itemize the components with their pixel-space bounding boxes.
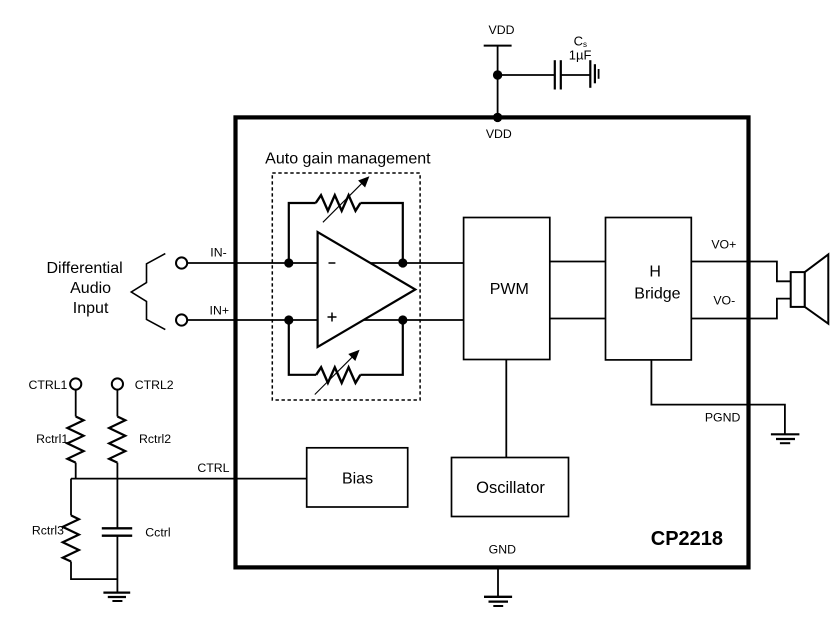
- svg-text:Input: Input: [73, 300, 109, 317]
- svg-text:IN+: IN+: [210, 304, 229, 318]
- wire CTRL: [71, 478, 307, 480]
- svg-text:Rctrl3: Rctrl3: [32, 524, 64, 538]
- block H Bridge: [606, 218, 692, 360]
- arrow (top variable resistor): [323, 182, 364, 223]
- wire IN- rail: [187, 262, 463, 264]
- svg-text:PGND: PGND: [705, 411, 741, 425]
- wire PWM to H bridge bottom: [550, 318, 606, 320]
- svg-text:IN-: IN-: [210, 246, 226, 260]
- power symbol VDD: [484, 45, 512, 47]
- dashed box auto gain management: [272, 173, 420, 400]
- op-amp plus input: [328, 316, 337, 318]
- wire Cs to ground: [561, 74, 591, 76]
- wire feedback loop top left: [289, 203, 316, 263]
- svg-text:VO-: VO-: [713, 294, 735, 308]
- node junction dot on chip top edge: [493, 113, 502, 122]
- svg-text:CTRL1: CTRL1: [28, 378, 67, 392]
- svg-text:VO+: VO+: [711, 238, 736, 252]
- arrow (bottom variable resistor): [315, 357, 353, 395]
- node dot IN-: [284, 258, 293, 267]
- wire CTRL to Cctrl: [116, 479, 118, 529]
- resistor Rctrl1: [67, 417, 83, 463]
- svg-text:Oscillator: Oscillator: [476, 479, 545, 497]
- svg-text:H: H: [649, 264, 661, 281]
- chip outline CP2218: [236, 117, 749, 567]
- wire to Cs: [498, 74, 555, 76]
- wire feedback loop top right: [360, 203, 402, 263]
- svg-text:1µF: 1µF: [569, 48, 592, 63]
- node dot out bottom: [398, 315, 407, 324]
- terminal CTRL2: [112, 378, 123, 389]
- wire feedback loop bottom left: [289, 320, 316, 375]
- svg-text:Bridge: Bridge: [634, 286, 680, 303]
- wire GND stem: [497, 567, 499, 597]
- wire Rctrl1 tail: [75, 463, 77, 479]
- svg-text:Rctrl1: Rctrl1: [36, 432, 68, 446]
- svg-text:Rctrl2: Rctrl2: [139, 432, 171, 446]
- resistor Rctrl3: [63, 515, 79, 561]
- capacitor Cctrl: [102, 528, 132, 535]
- svg-text:CTRL2: CTRL2: [135, 378, 174, 392]
- svg-text:CTRL: CTRL: [197, 461, 229, 475]
- svg-text:GND: GND: [489, 543, 516, 557]
- ground (GND): [484, 597, 512, 606]
- brace: [131, 254, 165, 330]
- resistor variable (top feedback): [316, 195, 361, 211]
- wire VO+: [691, 262, 790, 282]
- wire down to Rctrl3: [70, 479, 72, 516]
- label Differential Audio Input: [47, 260, 123, 317]
- block PWM: [464, 218, 550, 360]
- node dot IN+: [284, 315, 293, 324]
- svg-text:Cctrl: Cctrl: [145, 526, 170, 540]
- op-amp U1: [318, 232, 416, 347]
- svg-text:PWM: PWM: [490, 281, 529, 298]
- svg-text:Audio: Audio: [70, 280, 111, 297]
- speaker LS1: [791, 254, 829, 323]
- wire Rctrl3 bottom: [71, 562, 117, 580]
- op-amp minus input: [329, 262, 336, 264]
- block Bias: [307, 448, 408, 507]
- svg-text:CP2218: CP2218: [651, 528, 723, 550]
- terminal IN+: [176, 314, 187, 325]
- wire CTRL1 stem: [75, 390, 77, 417]
- wire IN+ rail: [187, 319, 463, 321]
- resistor Rctrl2: [109, 417, 125, 463]
- resistor variable (bottom feedback): [316, 367, 360, 383]
- svg-text:Differential: Differential: [47, 260, 123, 277]
- terminal IN-: [176, 257, 187, 268]
- wire CTRL2 stem: [116, 390, 118, 417]
- ground (Cctrl): [103, 593, 130, 601]
- svg-text:VDD: VDD: [486, 127, 512, 141]
- ground (right of Cs): [590, 60, 598, 88]
- terminal CTRL1: [70, 378, 81, 389]
- wire feedback loop bottom right: [360, 320, 402, 375]
- wire PWM to oscillator: [505, 360, 507, 458]
- svg-text:Auto gain management: Auto gain management: [265, 151, 431, 168]
- wire VO-: [691, 299, 790, 319]
- wire H bridge to PGND: [651, 360, 785, 435]
- svg-text:Bias: Bias: [342, 471, 373, 488]
- wire PWM to H bridge top: [550, 261, 606, 263]
- node dot out top: [398, 258, 407, 267]
- block Oscillator: [452, 458, 569, 517]
- wire Cctrl to ground: [116, 536, 118, 593]
- svg-text:VDD: VDD: [489, 23, 515, 37]
- capacitor C_s: [555, 60, 561, 89]
- node junction dot VDD: [493, 70, 502, 79]
- ground (PGND): [771, 434, 800, 443]
- wire VDD stem: [497, 46, 499, 118]
- wire Rctrl2 tail: [116, 463, 118, 479]
